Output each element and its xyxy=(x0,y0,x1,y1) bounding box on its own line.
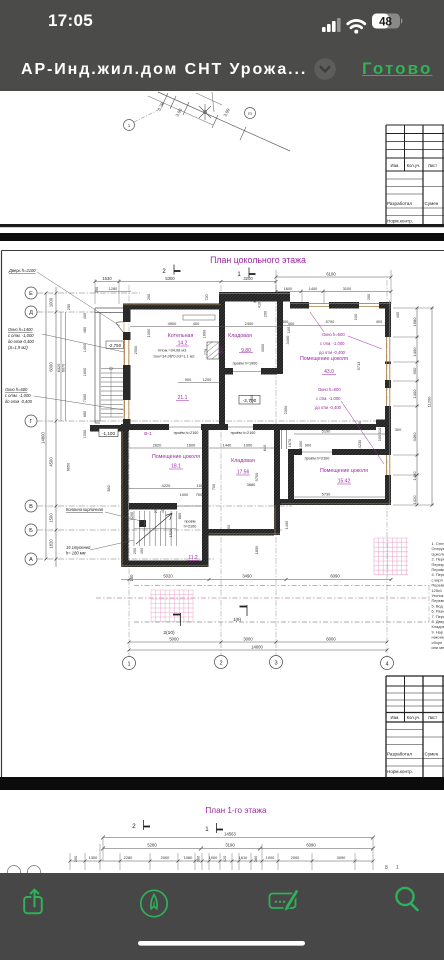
window h=600 in boiler wall xyxy=(124,400,126,419)
svg-text:Норм.контр.: Норм.контр. xyxy=(387,219,413,224)
axis G horizontal dash-dot line xyxy=(37,420,391,422)
axis circle 2 bottom xyxy=(215,656,228,669)
boiler room left wall segment a xyxy=(123,310,131,323)
svg-text:15 ступеней: 15 ступеней xyxy=(66,545,91,550)
floor overlay dashed right edge xyxy=(428,586,430,623)
lower stair treads xyxy=(134,511,176,546)
separator 2 xyxy=(0,777,444,790)
top dimension line 6100 xyxy=(276,276,391,278)
left dimension line chain xyxy=(55,287,57,567)
section mark 1 xyxy=(205,823,223,833)
svg-text:В: В xyxy=(29,504,33,510)
axis 1 vertical dash-dot line xyxy=(128,285,130,656)
room 15.42 top wall segment a xyxy=(288,449,302,455)
extension lines of dimension row xyxy=(70,837,373,870)
toolbar xyxy=(0,873,444,960)
svg-text:410: 410 xyxy=(258,302,262,308)
svg-text:с отм. -1.000: с отм. -1.000 xyxy=(320,341,345,346)
top dimension row 1600 1400 3100 xyxy=(276,291,391,293)
axis circle m xyxy=(245,108,256,119)
svg-text:200: 200 xyxy=(147,294,151,300)
search icon xyxy=(396,888,417,910)
svg-text:Разработал: Разработал xyxy=(387,201,412,206)
svg-text:1600: 1600 xyxy=(284,287,292,291)
right exterior wall segment b xyxy=(385,380,391,388)
top wall step of storeroom 9.80 xyxy=(219,292,290,302)
underlines of room values xyxy=(169,346,351,561)
site plan secondary diagonal line xyxy=(148,96,213,125)
PAGE 3 (top fragment of next sheet) xyxy=(0,790,444,873)
svg-text:1870: 1870 xyxy=(287,438,292,447)
svg-text:1440: 1440 xyxy=(223,443,232,448)
svg-text:Окно h=600: Окно h=600 xyxy=(318,387,341,392)
tick marks small row xyxy=(69,860,375,863)
leader steps note xyxy=(90,540,134,550)
svg-text:11.2: 11.2 xyxy=(188,555,198,561)
svg-text:Д: Д xyxy=(29,310,33,316)
svg-text:2300: 2300 xyxy=(249,394,254,403)
svg-text:9,80: 9,80 xyxy=(241,348,251,354)
dim line 5000 3000 6000 xyxy=(129,641,387,643)
svg-text:1520: 1520 xyxy=(168,528,173,537)
svg-text:1850: 1850 xyxy=(254,545,259,554)
window in right wall 1 xyxy=(386,337,388,380)
axis E horizontal dash-dot line xyxy=(37,292,140,294)
leader column note xyxy=(105,512,141,521)
PAGE 1 (bottom fragment of previous sheet) xyxy=(0,91,444,233)
markup pen-in-circle icon xyxy=(141,890,167,916)
svg-text:-2,750: -2,750 xyxy=(109,343,122,348)
window in top wall right 2 xyxy=(359,303,379,305)
svg-text:6650: 6650 xyxy=(67,463,71,471)
svg-text:5730: 5730 xyxy=(322,492,331,497)
svg-text:Помещение цоколя: Помещение цоколя xyxy=(320,468,368,474)
svg-text:150: 150 xyxy=(129,574,134,582)
svg-text:5020: 5020 xyxy=(163,574,173,579)
svg-text:4900: 4900 xyxy=(168,321,177,326)
svg-text:3.09: 3.09 xyxy=(222,107,231,117)
svg-text:1530: 1530 xyxy=(102,276,112,281)
inner wall axis 2 lower xyxy=(202,430,209,567)
svg-text:21.1: 21.1 xyxy=(178,395,188,401)
svg-text:Кол.уч.: Кол.уч. xyxy=(407,163,421,168)
svg-text:проём h=2100: проём h=2100 xyxy=(305,457,330,461)
dimension line 5280 3190 6090 xyxy=(103,848,373,850)
pink grid block terrace xyxy=(151,590,193,622)
light well thin walls xyxy=(95,308,123,423)
svg-text:до отм -0,400: до отм -0,400 xyxy=(5,399,33,404)
done button xyxy=(362,59,432,79)
svg-text:5700: 5700 xyxy=(254,472,259,481)
svg-text:Сумен: Сумен xyxy=(425,752,439,757)
svg-text:380: 380 xyxy=(253,855,258,862)
svg-text:720: 720 xyxy=(205,294,209,300)
top extension lines xyxy=(95,270,391,304)
svg-text:1000: 1000 xyxy=(298,440,303,449)
svg-text:14800: 14800 xyxy=(41,432,46,444)
left inner dimension lines xyxy=(60,312,62,421)
wifi xyxy=(348,20,365,33)
svg-text:Г: Г xyxy=(29,419,32,425)
svg-text:2620: 2620 xyxy=(153,443,162,448)
svg-text:3200: 3200 xyxy=(243,276,253,281)
svg-text:900: 900 xyxy=(305,443,312,448)
lower left exterior wall xyxy=(121,431,129,567)
svg-text:до отм -0,400: до отм -0,400 xyxy=(315,405,342,410)
svg-text:43.0: 43.0 xyxy=(324,369,334,375)
axis circle A xyxy=(25,553,37,565)
svg-text:h=2100: h=2100 xyxy=(184,525,197,529)
svg-text:2500: 2500 xyxy=(133,345,138,354)
overall dimension line 14563 xyxy=(103,837,373,839)
svg-text:Изм.: Изм. xyxy=(391,715,400,720)
axis 4 vertical dash-dot line xyxy=(386,280,388,656)
room 15.42 left wall xyxy=(288,455,294,499)
svg-text:Sок=34,08*0,03=1,1 м2: Sок=34,08*0,03=1,1 м2 xyxy=(153,354,194,359)
window note purple 1 xyxy=(319,332,346,355)
svg-text:Лист: Лист xyxy=(428,163,437,168)
benchmark point symbol xyxy=(199,104,211,120)
svg-text:3400: 3400 xyxy=(285,335,290,344)
axis D horizontal dash-dot line xyxy=(37,311,100,313)
svg-text:420: 420 xyxy=(222,855,227,862)
sheet 2 frame top border xyxy=(2,250,444,252)
svg-text:15.42: 15.42 xyxy=(338,479,351,485)
svg-text:200: 200 xyxy=(264,311,268,317)
svg-text:779: 779 xyxy=(203,349,208,356)
svg-text:14000: 14000 xyxy=(251,645,263,650)
svg-text:5713: 5713 xyxy=(356,362,361,371)
svg-text:1610: 1610 xyxy=(239,855,248,860)
right exterior wall segment c xyxy=(385,406,391,420)
floor overlay dashed band top xyxy=(134,585,429,587)
axis circle 1 bottom xyxy=(123,657,136,670)
svg-text:с отм. -1,000: с отм. -1,000 xyxy=(5,393,31,398)
svg-text:400: 400 xyxy=(376,319,383,324)
svg-text:(S=1,9 м2): (S=1,9 м2) xyxy=(8,345,28,350)
storeroom 9.80 bottom wall segment b xyxy=(261,368,277,375)
svg-text:1000: 1000 xyxy=(49,297,54,307)
svg-text:1000: 1000 xyxy=(209,855,218,860)
right wall window mullion xyxy=(385,362,391,365)
svg-text:1000: 1000 xyxy=(83,430,87,438)
svg-text:Помещение цоколя: Помещение цоколя xyxy=(300,356,348,362)
dim line 150 5020 3490 6090 xyxy=(121,579,391,581)
sheet 2 frame left border xyxy=(1,251,3,778)
svg-text:900: 900 xyxy=(412,367,417,374)
svg-text:Помещение цоколя: Помещение цоколя xyxy=(152,454,200,460)
svg-text:Кладовая: Кладовая xyxy=(228,333,252,339)
svg-text:250: 250 xyxy=(132,547,137,554)
svg-text:400: 400 xyxy=(139,547,144,554)
site plan third diagonal line xyxy=(196,93,222,105)
separator 1 xyxy=(0,233,444,241)
dim line 900 1200 doorway xyxy=(178,382,221,384)
svg-text:Кладовая: Кладовая xyxy=(231,458,255,464)
svg-text:1(9): 1(9) xyxy=(233,617,241,622)
partial axis circle bottom left a xyxy=(8,866,21,879)
svg-text:5280: 5280 xyxy=(147,843,157,848)
corridor gap thin lines xyxy=(281,430,283,449)
perpendicular tick marks on diagonal xyxy=(162,93,246,140)
svg-text:1000: 1000 xyxy=(180,492,189,497)
svg-text:14.2: 14.2 xyxy=(178,341,188,347)
svg-text:5000: 5000 xyxy=(169,637,179,642)
svg-text:1820: 1820 xyxy=(49,539,54,549)
site plan short vertical line xyxy=(212,92,214,112)
small dimension row xyxy=(70,860,373,862)
svg-text:120: 120 xyxy=(287,458,292,465)
leader door note xyxy=(37,272,120,326)
svg-text:6100: 6100 xyxy=(326,271,336,276)
svg-text:380: 380 xyxy=(196,855,201,862)
upper stair treads xyxy=(101,369,123,418)
svg-text:2300: 2300 xyxy=(283,405,288,414)
home indicator xyxy=(138,941,305,946)
axis 3 vertical dash-dot line xyxy=(275,285,277,655)
svg-text:2400: 2400 xyxy=(245,321,254,326)
dim row under mid wall left xyxy=(153,427,402,465)
axis A horizontal dash-dot line xyxy=(37,558,215,560)
svg-text:17.56: 17.56 xyxy=(237,470,250,476)
svg-text:План цокольного этажа: План цокольного этажа xyxy=(210,255,306,265)
svg-text:1000: 1000 xyxy=(197,483,206,488)
svg-text:100: 100 xyxy=(286,326,291,333)
svg-text:1000: 1000 xyxy=(146,328,151,337)
top wall left thick segment xyxy=(123,304,221,310)
svg-text:Vпом.=34,08 м3: Vпом.=34,08 м3 xyxy=(158,348,187,353)
svg-text:700: 700 xyxy=(211,483,216,490)
svg-text:250: 250 xyxy=(153,506,158,513)
top wall right segment b xyxy=(329,302,359,309)
svg-text:1600: 1600 xyxy=(83,368,87,376)
svg-text:2: 2 xyxy=(162,269,166,275)
svg-text:400: 400 xyxy=(396,312,400,318)
top dimension row 150 1280 xyxy=(95,291,131,293)
bottom right exterior wall xyxy=(280,499,391,505)
svg-text:660: 660 xyxy=(83,411,87,417)
svg-text:640: 640 xyxy=(262,444,267,451)
share icon xyxy=(24,890,42,914)
svg-text:2(10): 2(10) xyxy=(163,630,175,636)
section mark 2 xyxy=(132,820,150,830)
axis circle D xyxy=(25,306,37,318)
window in right wall 2 xyxy=(386,388,388,406)
svg-text:2280: 2280 xyxy=(124,855,133,860)
window sill symbol on top wall xyxy=(183,315,215,320)
chevron button xyxy=(312,56,338,82)
wall at axis G joining stairwell xyxy=(90,425,129,432)
svg-text:В-1: В-1 xyxy=(144,431,152,437)
top wall right segment a xyxy=(290,302,309,309)
svg-text:Кол.уч.: Кол.уч. xyxy=(407,715,421,720)
boiler room left wall segment b xyxy=(123,332,131,340)
svg-text:6320: 6320 xyxy=(57,364,61,372)
leader to right wall window 1 xyxy=(348,336,382,349)
svg-text:380: 380 xyxy=(106,484,111,491)
svg-text:3490: 3490 xyxy=(242,574,252,579)
svg-text:3: 3 xyxy=(274,660,277,666)
svg-text:1000: 1000 xyxy=(244,443,253,448)
svg-text:48: 48 xyxy=(379,17,392,29)
svg-text:2: 2 xyxy=(132,823,136,830)
insulation lines on exterior walls xyxy=(121,294,391,568)
svg-text:проём h=1900: проём h=1900 xyxy=(233,362,258,366)
svg-text:18.1: 18.1 xyxy=(171,464,181,470)
axis circle E xyxy=(25,287,37,299)
svg-text:6070: 6070 xyxy=(61,364,65,372)
svg-text:2000: 2000 xyxy=(291,855,300,860)
svg-text:100: 100 xyxy=(120,484,125,491)
svg-text:3680: 3680 xyxy=(247,482,256,487)
mid wall segment b xyxy=(201,424,228,430)
mid wall segment c xyxy=(253,424,376,430)
svg-text:1200: 1200 xyxy=(203,377,212,382)
svg-text:1200: 1200 xyxy=(129,511,134,520)
right exterior wall segment e xyxy=(385,475,391,505)
svg-text:с отм. -1,000: с отм. -1,000 xyxy=(8,333,34,338)
signal bars xyxy=(322,18,341,32)
svg-text:200: 200 xyxy=(367,294,371,300)
dim line 4900/2400 below top wall xyxy=(130,326,281,328)
boiler room left wall segment c xyxy=(123,365,131,400)
svg-text:Лист: Лист xyxy=(428,715,437,720)
svg-text:880: 880 xyxy=(177,512,182,519)
svg-text:проём h=2100: проём h=2100 xyxy=(231,431,256,435)
dims near lower stairs xyxy=(129,394,362,554)
svg-text:6090: 6090 xyxy=(306,843,316,848)
dim line 14000 xyxy=(129,649,387,651)
wall above lower stairs xyxy=(129,503,177,510)
axis circle 4 bottom xyxy=(381,657,394,670)
status time xyxy=(48,11,93,31)
top dimension line 1530 5300 3200 xyxy=(95,281,276,283)
dim row bottom of rooms xyxy=(106,472,331,497)
svg-text:проём h=2100: проём h=2100 xyxy=(174,431,199,435)
svg-text:3000: 3000 xyxy=(243,637,253,642)
svg-text:1400: 1400 xyxy=(284,520,289,529)
right exterior wall segment d xyxy=(385,427,391,455)
svg-text:7000: 7000 xyxy=(83,394,87,402)
svg-text:4500: 4500 xyxy=(49,457,54,467)
svg-text:1400: 1400 xyxy=(309,287,317,291)
storeroom 17.56 right wall xyxy=(274,430,280,535)
svg-text:или ме: или ме xyxy=(432,645,444,650)
door leaf of boiler room door xyxy=(116,322,123,332)
svg-text:2000: 2000 xyxy=(161,855,170,860)
right exterior wall segment a xyxy=(385,302,391,337)
axis circle V xyxy=(25,500,37,512)
status icons xyxy=(316,10,411,36)
svg-text:В-2: В-2 xyxy=(219,346,224,354)
svg-text:300: 300 xyxy=(395,427,402,432)
svg-text:проём: проём xyxy=(184,520,195,524)
storeroom 9.80 bottom wall segment a xyxy=(225,368,233,375)
svg-text:6000: 6000 xyxy=(326,637,336,642)
room 15.42 top wall segment b xyxy=(332,449,385,455)
svg-text:Окно h=600: Окно h=600 xyxy=(5,387,28,392)
level mark -1.100 xyxy=(99,429,118,437)
leader window 600 note xyxy=(34,396,124,410)
section mark 1(9) xyxy=(246,605,248,616)
svg-text:1600: 1600 xyxy=(187,443,196,448)
svg-text:Сумен: Сумен xyxy=(425,201,439,206)
svg-text:1: 1 xyxy=(128,123,131,128)
svg-text:6090: 6090 xyxy=(330,574,340,579)
axis B horizontal dash-dot line xyxy=(37,529,282,531)
svg-text:14563: 14563 xyxy=(224,832,236,837)
svg-text:1500: 1500 xyxy=(49,513,54,523)
leader window 1400 note xyxy=(42,334,124,352)
pilaster at right wall xyxy=(376,420,391,428)
svg-text:Дверь h=2100: Дверь h=2100 xyxy=(8,268,36,273)
svg-text:3090: 3090 xyxy=(337,855,346,860)
vent shaft hatched block xyxy=(207,342,219,359)
svg-text:400: 400 xyxy=(193,321,200,326)
svg-text:с отм. -1.000: с отм. -1.000 xyxy=(316,396,341,401)
svg-text:5700: 5700 xyxy=(326,319,335,324)
boiler room right wall axis 2 xyxy=(219,301,225,424)
partial axis circle bottom left b xyxy=(28,866,41,879)
svg-text:до отм-0,400: до отм-0,400 xyxy=(8,339,34,344)
svg-text:m: m xyxy=(248,111,252,116)
svg-text:100: 100 xyxy=(353,313,358,320)
window h=1400 in boiler wall xyxy=(125,340,129,419)
svg-text:510: 510 xyxy=(377,427,382,434)
svg-text:1400: 1400 xyxy=(83,344,87,352)
boiler room left wall segment d xyxy=(123,419,131,430)
door opening room 15.42 xyxy=(302,451,332,453)
stair post circle xyxy=(110,367,113,370)
svg-text:4: 4 xyxy=(385,661,388,667)
window note purple 2 xyxy=(315,387,342,410)
header bar xyxy=(0,0,444,91)
svg-text:3100: 3100 xyxy=(343,287,351,291)
svg-text:1020: 1020 xyxy=(412,495,417,505)
text field with pen icon xyxy=(270,889,299,911)
svg-text:5300: 5300 xyxy=(165,276,175,281)
svg-text:1280: 1280 xyxy=(109,287,117,291)
rotated small dims near top wall xyxy=(147,294,400,352)
svg-text:Котельная: Котельная xyxy=(168,333,194,339)
window in right wall 3 xyxy=(386,455,388,475)
opening labels xyxy=(174,362,330,529)
axis circle G xyxy=(25,415,37,427)
wall between storeroom and basement room 43 xyxy=(277,292,283,374)
left outer dimension line 14800 xyxy=(45,293,47,559)
level mark -2.750 xyxy=(106,341,124,349)
door opening storeroom 9.80 xyxy=(233,371,261,373)
svg-text:1080: 1080 xyxy=(184,855,193,860)
svg-text:Окно h=1400: Окно h=1400 xyxy=(8,327,33,332)
floor overlay dashed band mid xyxy=(96,597,429,599)
svg-text:6000: 6000 xyxy=(49,362,54,372)
svg-text:1400: 1400 xyxy=(412,347,417,357)
svg-text:до отм -0,400: до отм -0,400 xyxy=(319,350,346,355)
svg-text:1000: 1000 xyxy=(266,855,275,860)
svg-text:Изм.: Изм. xyxy=(391,163,400,168)
svg-text:11200: 11200 xyxy=(427,396,432,408)
svg-text:-1,100: -1,100 xyxy=(102,431,115,436)
svg-text:1: 1 xyxy=(237,272,241,278)
top wall right segment c xyxy=(379,302,391,309)
svg-text:Норм.контр.: Норм.контр. xyxy=(387,769,413,774)
svg-text:Б: Б xyxy=(29,528,33,534)
svg-text:3460: 3460 xyxy=(412,432,417,442)
stair direction arrow xyxy=(136,513,172,544)
small left wall dims rotated xyxy=(67,304,87,438)
site plan diagonal dimension line xyxy=(158,92,290,151)
